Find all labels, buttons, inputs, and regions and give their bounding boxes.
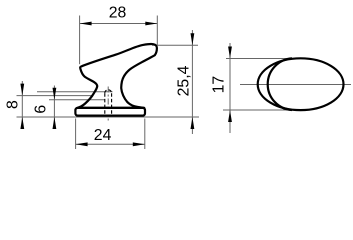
- svg-text:17: 17: [211, 76, 228, 94]
- svg-text:25,4: 25,4: [176, 65, 193, 96]
- svg-text:28: 28: [109, 5, 127, 22]
- svg-text:24: 24: [94, 127, 112, 144]
- svg-text:6: 6: [32, 105, 49, 114]
- svg-text:8: 8: [4, 100, 21, 109]
